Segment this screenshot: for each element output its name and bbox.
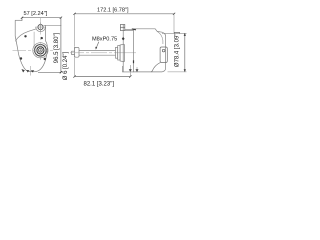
dim 78.4 line — [184, 33, 186, 72]
bracket strap — [125, 29, 134, 30]
svg-text:M8xP0.75: M8xP0.75 — [92, 37, 117, 43]
svg-text:82.1 [3.23"]: 82.1 [3.23"] — [84, 81, 115, 87]
bracket block mid line — [120, 26, 124, 28]
top hole — [38, 25, 43, 30]
gearbox neck line — [33, 32, 35, 48]
bracket rod — [122, 25, 124, 72]
dim 78.4 bottom extension — [168, 71, 187, 73]
dim 96.5 line — [60, 18, 62, 73]
svg-text:57 [2.24"]: 57 [2.24"] — [24, 11, 48, 17]
housing sweep to hole boss — [15, 29, 36, 41]
shaft stub — [72, 51, 75, 54]
baseline tick — [60, 71, 62, 73]
vertical centerline hole-boss — [40, 18, 42, 60]
hole boss lower arc — [36, 27, 46, 32]
shaft tip body — [75, 47, 80, 57]
nut 1 — [116, 47, 118, 58]
upper stud dot right — [41, 37, 43, 39]
leader left arrow — [95, 47, 97, 50]
dim 172.1 ticks — [73, 13, 175, 15]
dim 172.1 line — [75, 13, 175, 15]
bolt dot left — [20, 57, 22, 59]
shaft boss ring4 — [39, 48, 43, 52]
shaft centerline — [70, 52, 136, 54]
housing top edge — [15, 19, 22, 21]
bracket top block — [120, 25, 124, 31]
dim 172.1 right extension — [173, 14, 175, 33]
bottom arrow marks — [22, 69, 35, 73]
dim 96.5 ticks — [60, 71, 62, 73]
dim 82.1 right extension — [129, 72, 131, 77]
dim 78.4 arrows — [184, 33, 186, 72]
motor face tick top — [132, 28, 136, 31]
vertical centerline U-bottom — [30, 66, 32, 76]
motor body outline — [134, 29, 166, 72]
dim 57 left extension — [21, 18, 23, 21]
shaft boss outer ring — [33, 43, 48, 58]
svg-text:Ø 6 [0.24"]: Ø 6 [0.24"] — [63, 51, 69, 80]
motor can seam arc — [157, 31, 163, 44]
dim 82.1 line — [75, 76, 131, 78]
bracket bolt diamond — [122, 37, 125, 41]
shaft — [79, 50, 116, 55]
rubber washer — [120, 44, 125, 62]
dim 82.1 ticks — [73, 75, 131, 77]
shaft boss ring2 — [35, 45, 47, 57]
baseline right — [123, 66, 134, 72]
top-right shelf line — [44, 25, 62, 27]
arrow x137 — [136, 69, 139, 72]
dim 82.1 left extension — [74, 58, 76, 77]
stub x137 — [136, 67, 138, 72]
leader left — [96, 42, 99, 48]
shaft center dot — [40, 50, 41, 51]
arrow x130 — [129, 69, 132, 72]
housing left edge and lower outline — [15, 20, 47, 71]
svg-text:96.5 [3.80"]: 96.5 [3.80"] — [54, 32, 60, 63]
dim 172.1 left extension — [74, 14, 76, 46]
wire — [151, 63, 160, 72]
bolt dot right — [44, 58, 46, 60]
dim 57 line — [22, 17, 61, 19]
baseline — [38, 71, 61, 73]
dim 57 ticks — [21, 17, 62, 19]
svg-text:Ø78.4 [3.09"]: Ø78.4 [3.09"] — [174, 32, 180, 67]
horizontal centerline — [13, 49, 54, 51]
svg-text:172.1 [6.78"]: 172.1 [6.78"] — [97, 8, 129, 14]
nut 2 — [118, 46, 120, 60]
connector circle — [162, 49, 165, 52]
shaft tip face — [74, 47, 76, 57]
connector box — [160, 47, 167, 63]
dim 78.4 top extension — [162, 32, 187, 34]
shaft boss ring3 — [37, 47, 44, 54]
stub x130 — [129, 65, 131, 72]
top hole crosshair — [36, 23, 45, 32]
upper stud dot left — [24, 35, 26, 37]
motor face tick mid — [133, 60, 135, 63]
